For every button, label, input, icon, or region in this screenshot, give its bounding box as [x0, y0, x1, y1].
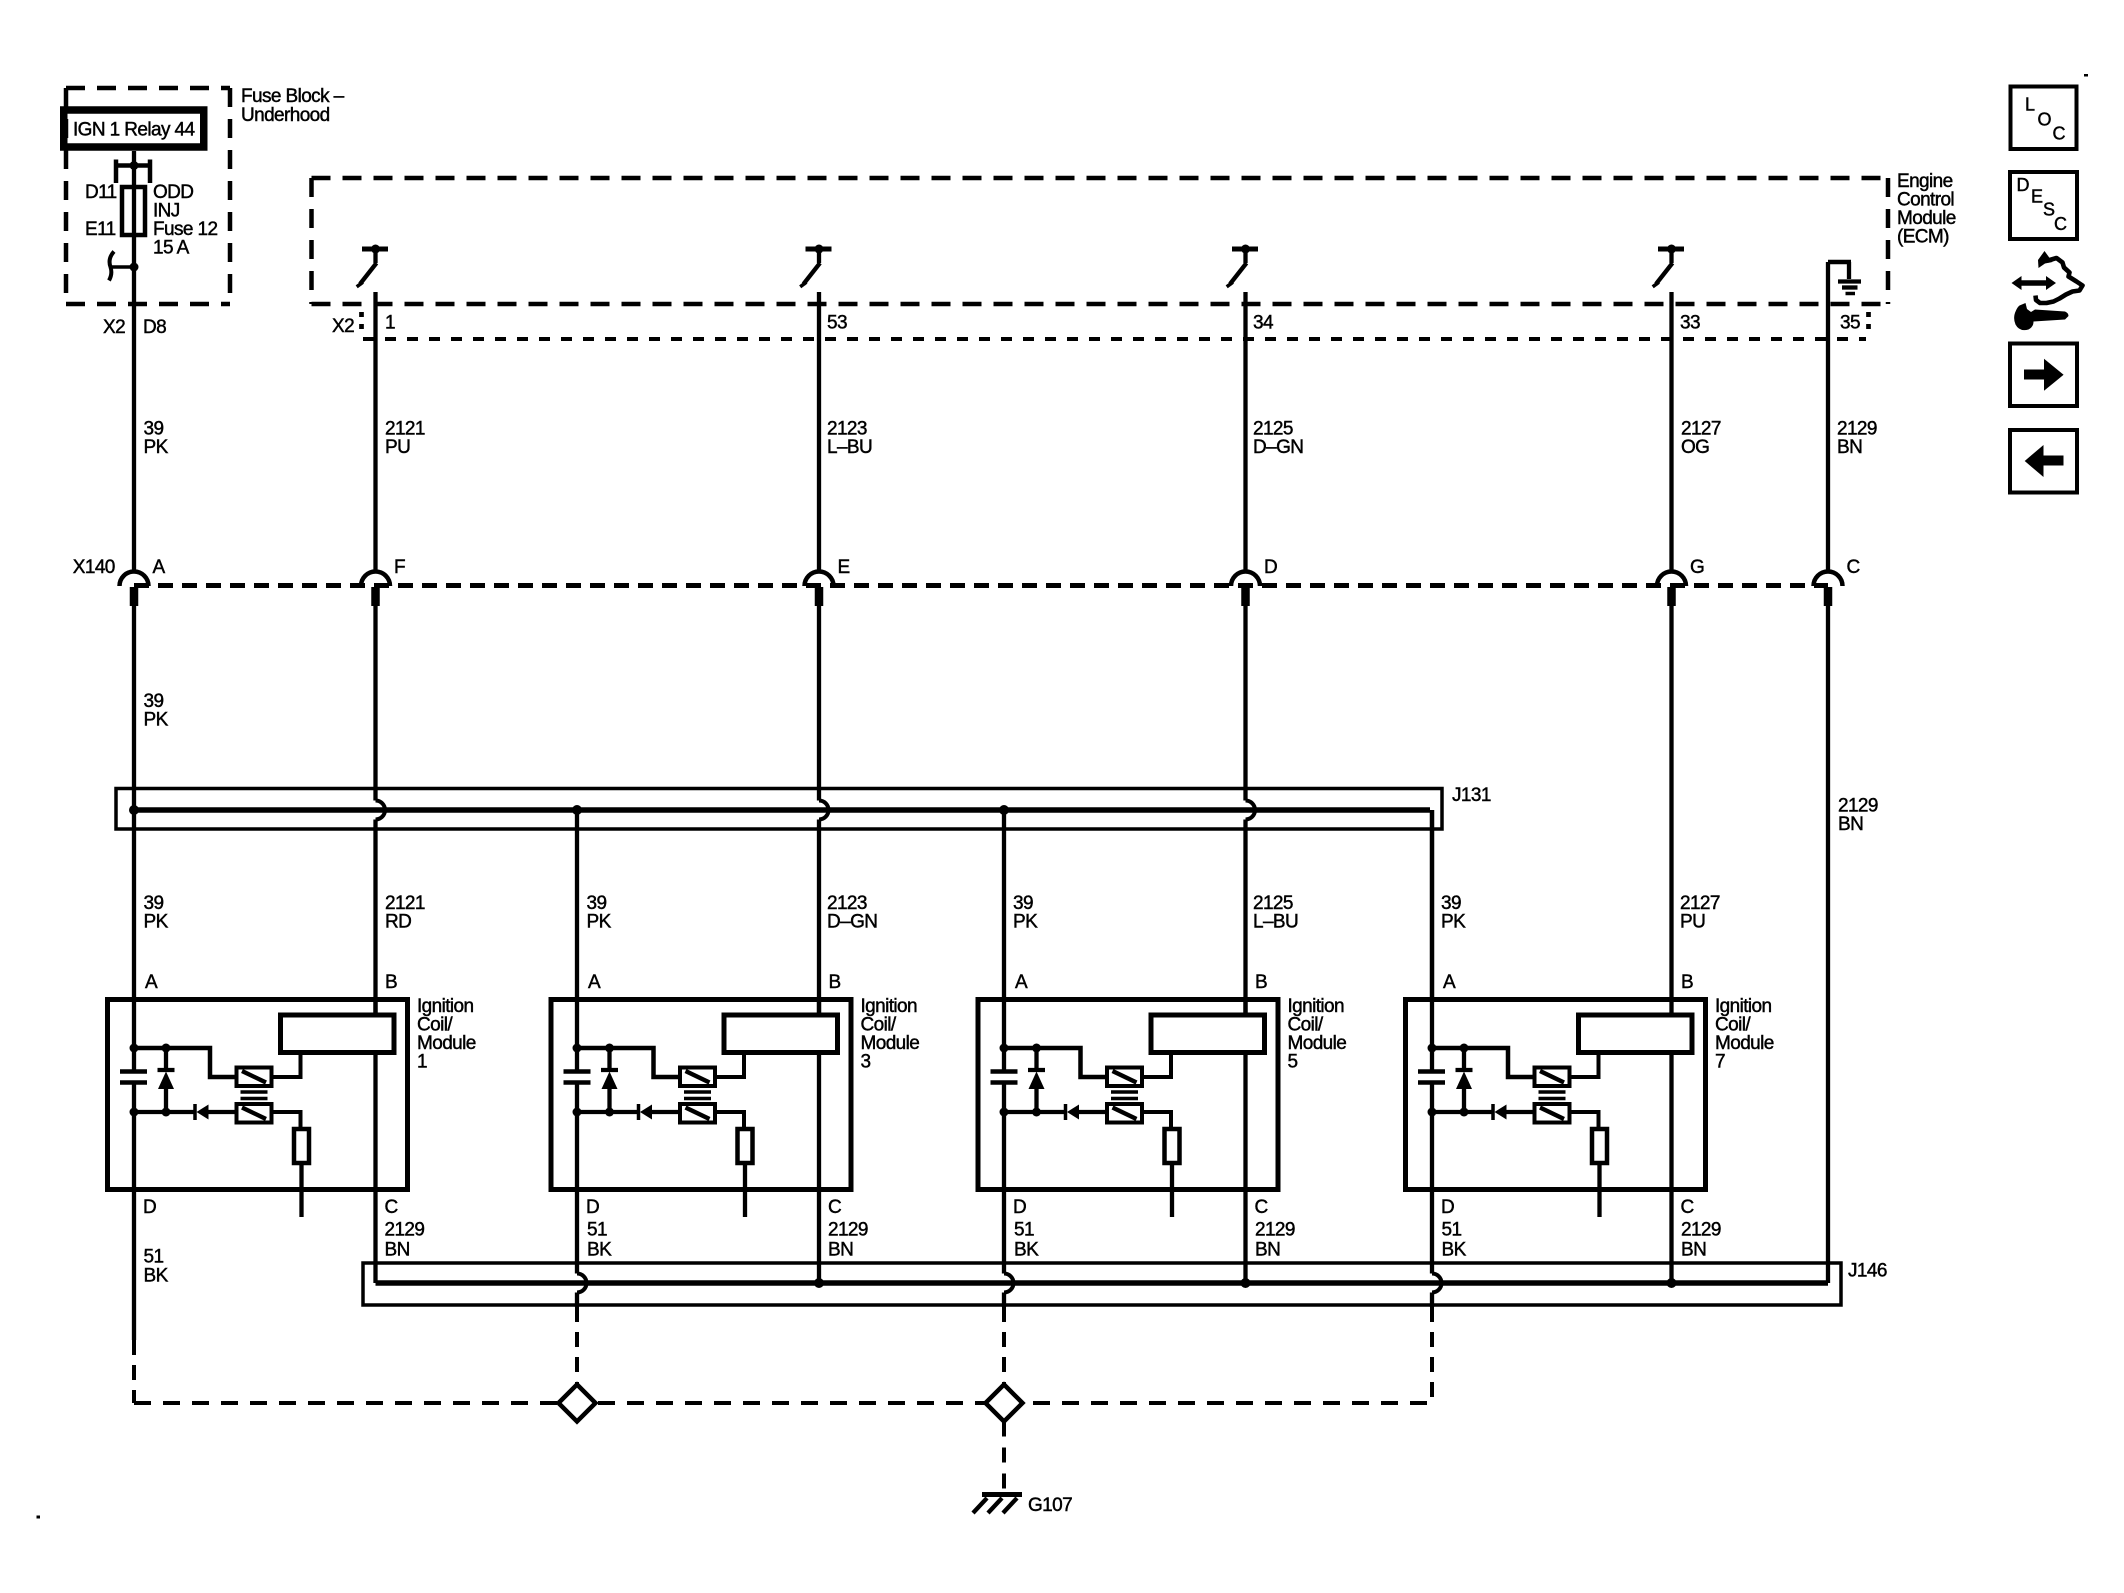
splice pack J131 box: [116, 789, 1442, 830]
dashed wire coil 3 BK to splice: [575, 1307, 579, 1384]
svg-text:X2: X2: [103, 317, 125, 338]
junction J146 coil 5 BN: [1241, 1278, 1251, 1288]
dashed wire coil 7 BK down: [1430, 1307, 1434, 1403]
svg-text:D: D: [2017, 175, 2030, 195]
secondary link coil 5: [1142, 1053, 1171, 1078]
svg-text:B: B: [385, 972, 397, 993]
wire 2123 below J131 to coil 3 B: [817, 820, 821, 1016]
svg-text:PU: PU: [385, 437, 410, 458]
primary winding block coil 5: [1151, 1015, 1265, 1053]
connector tick left: [359, 312, 364, 331]
wire 2125 below J131 to coil 5 B: [1243, 820, 1247, 1016]
core bars coil 7: [1539, 1092, 1566, 1099]
coil 7 internal lower rail: [1432, 1110, 1535, 1114]
coil 3 internal lower rail: [577, 1110, 680, 1114]
junction top-left coil 3: [573, 1044, 582, 1053]
resistor coil 1: [294, 1129, 309, 1163]
junction J146 coil 7 BN: [1667, 1278, 1677, 1288]
svg-text:33: 33: [1680, 313, 1700, 334]
spark output stub coil 7: [1597, 1163, 1601, 1217]
svg-text:BN: BN: [1255, 1240, 1280, 1261]
coil 3 pin A internal wire: [575, 997, 579, 1192]
junction lower zener coil 7: [1460, 1108, 1469, 1117]
fuse F12 ODD INJ Fuse 12 15 A: [122, 187, 145, 235]
junction J146 coil 3 BN: [814, 1278, 824, 1288]
junction top-left coil 7: [1428, 1044, 1437, 1053]
resistor coil 5: [1165, 1129, 1180, 1163]
pin D8 label: [143, 317, 166, 338]
coil 5 internal lower rail: [1004, 1110, 1107, 1114]
ECM driver switch for pin 1: [357, 245, 388, 287]
junction top-left coil 1: [130, 1044, 139, 1053]
wire 2125 D-GN pin34 to X140 D: [1243, 292, 1247, 573]
svg-text:B: B: [1681, 972, 1693, 993]
ECM driver switch for pin 33: [1653, 245, 1684, 287]
wire label 51 BK coil 5: [1014, 1220, 1039, 1261]
svg-text:C: C: [1681, 1197, 1694, 1218]
dashed wire coil 5 BK to splice: [1002, 1307, 1006, 1384]
wire label 2129 BN right side: [1838, 796, 1878, 836]
svg-text:PU: PU: [1680, 912, 1705, 933]
connector tick right: [1866, 312, 1871, 331]
svg-text:2129: 2129: [1255, 1220, 1295, 1241]
spark output stub coil 1: [299, 1163, 303, 1217]
wire coil 1 pin B through primary: [373, 997, 377, 1192]
driver upper coil 7: [1535, 1068, 1570, 1087]
pin 53 label: [827, 313, 847, 334]
svg-text:51: 51: [144, 1247, 164, 1268]
stray mark top right: [2084, 74, 2088, 77]
svg-text:1: 1: [385, 313, 395, 334]
driver lower coil 5: [1107, 1104, 1142, 1123]
svg-text:53: 53: [827, 313, 847, 334]
connector X140 dashed line: [134, 583, 1828, 588]
capacitor coil 1: [120, 1072, 147, 1083]
zener diode coil 5: [1028, 1048, 1045, 1112]
pin B label coil 3: [829, 972, 841, 993]
pin B label coil 1: [385, 972, 397, 993]
svg-text:IGN 1 Relay 44: IGN 1 Relay 44: [73, 120, 196, 141]
wire 2125 above J131: [1243, 606, 1247, 801]
label X2 (ECM connector): [332, 316, 354, 337]
svg-text:D8: D8: [143, 317, 166, 338]
svg-text:E: E: [838, 557, 850, 578]
ECM driver switch for pin 53: [800, 245, 831, 287]
dashed wire splice to ground: [1002, 1422, 1006, 1495]
wire 2121 below J131 to coil 1 B: [373, 820, 377, 1016]
svg-text:C: C: [385, 1197, 398, 1218]
driver upper coil 5: [1107, 1068, 1142, 1087]
svg-text:OG: OG: [1681, 437, 1709, 458]
wire label 39 PK: [144, 419, 169, 459]
diode coil 5: [1066, 1104, 1080, 1120]
wire label 2121 PU: [385, 419, 425, 459]
diode coil 1: [195, 1104, 209, 1120]
svg-text:X140: X140: [73, 557, 115, 578]
driver upper coil 3: [680, 1068, 715, 1087]
svg-text:15 A: 15 A: [153, 238, 190, 259]
harness routing icon (hose and wrench): [2012, 251, 2083, 330]
label Fuse Block - Underhood: [241, 86, 345, 126]
label D11: [85, 182, 117, 203]
svg-text:E: E: [2031, 187, 2043, 207]
junction top zener coil 3: [605, 1044, 614, 1053]
junction lower-left coil 3: [573, 1108, 582, 1117]
wire 2129 BN coil 3 C to J146: [817, 1192, 821, 1283]
J131 bus line: [134, 810, 1432, 997]
wire label 2123 D-GN: [827, 893, 877, 933]
resistor feed coil 3: [715, 1112, 744, 1129]
forward arrow box: [2010, 344, 2077, 407]
svg-text:BK: BK: [1442, 1240, 1467, 1261]
wire 2129 BN coil 7 C to J146: [1669, 1192, 1673, 1283]
ECM dashed box (Engine Control Module): [312, 178, 1889, 304]
svg-text:G107: G107: [1028, 1495, 1072, 1516]
svg-text:D: D: [1013, 1197, 1026, 1218]
pin A label coil 3: [588, 972, 601, 993]
capacitor coil 7: [1418, 1072, 1445, 1083]
X140 terminal A: [120, 557, 166, 606]
pin C label coil 1: [385, 1197, 398, 1218]
svg-text:(ECM): (ECM): [1897, 227, 1949, 248]
wire label 2125 L-BU: [1253, 893, 1298, 933]
pin C label coil 5: [1255, 1197, 1268, 1218]
wire 2127 X140 G to coil 7 B: [1669, 606, 1673, 997]
X140 terminal F: [361, 557, 405, 606]
spark output stub coil 5: [1170, 1163, 1174, 1217]
svg-text:A: A: [588, 972, 601, 993]
wire 2129 BN coil 1 C to J146: [373, 1192, 377, 1283]
svg-text:PK: PK: [144, 437, 169, 458]
core bars coil 5: [1111, 1092, 1138, 1099]
junction lower zener coil 3: [605, 1108, 614, 1117]
svg-text:A: A: [153, 557, 166, 578]
svg-text:RD: RD: [385, 912, 411, 933]
svg-text:PK: PK: [1013, 912, 1038, 933]
svg-text:D: D: [143, 1197, 156, 1218]
ignition coil module 1 box: [108, 1000, 408, 1190]
junction node at relay contact: [130, 263, 139, 272]
svg-text:BK: BK: [144, 1266, 169, 1287]
ignition coil module 5 box: [978, 1000, 1278, 1190]
ECM internal ground symbol at pin 35: [1828, 262, 1861, 294]
splice diamond S2: [986, 1385, 1023, 1422]
zener diode coil 3: [601, 1048, 618, 1112]
svg-text:2129: 2129: [385, 1220, 425, 1241]
svg-text:BN: BN: [1838, 814, 1863, 835]
svg-text:5: 5: [1288, 1052, 1298, 1073]
resistor feed coil 1: [272, 1112, 301, 1129]
label J131: [1452, 785, 1491, 806]
pin C label coil 3: [828, 1197, 841, 1218]
wire label 51 BK coil 3: [587, 1220, 612, 1261]
svg-text:L–BU: L–BU: [827, 437, 872, 458]
ground G107 symbol: [973, 1495, 1022, 1514]
svg-text:B: B: [829, 972, 841, 993]
svg-text:34: 34: [1253, 313, 1274, 334]
pin 33 label: [1680, 313, 1700, 334]
zener diode coil 1: [158, 1048, 175, 1112]
wire label 51 BK coil 1: [144, 1247, 169, 1287]
svg-text:J131: J131: [1452, 785, 1491, 806]
svg-text:D: D: [586, 1197, 599, 1218]
stray speck bottom left: [37, 1516, 41, 1519]
svg-text:BK: BK: [587, 1240, 612, 1261]
label E11: [85, 219, 116, 240]
svg-text:7: 7: [1715, 1052, 1725, 1073]
pin C label coil 7: [1681, 1197, 1694, 1218]
wire 2123 L-BU pin53 to X140 E: [817, 292, 821, 573]
wire 51 BK coil 5 D to J146: [1002, 1192, 1006, 1274]
wire label 2121 RD: [385, 893, 425, 933]
svg-text:C: C: [1255, 1197, 1268, 1218]
junction top zener coil 1: [162, 1044, 171, 1053]
wire coil 3 pin B through primary: [817, 997, 821, 1192]
ECM driver switch for pin 34: [1227, 245, 1258, 287]
svg-text:35: 35: [1840, 313, 1860, 334]
pin 34 label: [1253, 313, 1274, 334]
wire 2129 BN coil 5 C to J146: [1243, 1192, 1247, 1283]
wire 51 BK coil 1 D down: [132, 1192, 136, 1340]
DESC navigation box: [2010, 172, 2077, 239]
primary winding block coil 1: [281, 1015, 395, 1053]
svg-text:51: 51: [1442, 1220, 1462, 1241]
svg-text:D11: D11: [85, 182, 117, 203]
wire 2123 hop over J131: [819, 801, 829, 820]
wire label 39 PK (coil3 A): [587, 893, 612, 933]
svg-text:Fuse Block –: Fuse Block –: [241, 86, 345, 107]
junction top-left coil 5: [1000, 1044, 1009, 1053]
svg-text:E11: E11: [85, 219, 116, 240]
wire 2121 PU pin1 to X140 F: [373, 292, 377, 573]
capacitor coil 3: [564, 1072, 591, 1083]
wire label 2129 BN coil 1: [385, 1220, 425, 1261]
svg-text:PK: PK: [587, 912, 612, 933]
X140 terminal D: [1231, 557, 1277, 606]
back arrow box: [2010, 430, 2077, 493]
svg-text:D: D: [1264, 557, 1277, 578]
relay switch contact: [109, 252, 134, 281]
svg-text:A: A: [1443, 972, 1456, 993]
svg-text:L: L: [2025, 95, 2035, 115]
junction J131 to coil 3: [572, 805, 582, 815]
wire coil 3 BK hop over J146: [577, 1274, 587, 1293]
wire label 39 PK (below X140): [144, 691, 169, 731]
splice diamond S1: [559, 1385, 596, 1422]
svg-text:A: A: [145, 972, 158, 993]
driver lower coil 1: [237, 1104, 272, 1123]
relay coil terminal bracket: [116, 160, 150, 184]
driver lower coil 7: [1535, 1104, 1570, 1123]
coil 7 internal top rail: [1432, 1048, 1535, 1077]
dashed ground bus line: [134, 1401, 1432, 1405]
primary winding block coil 7: [1579, 1015, 1693, 1053]
junction lower zener coil 5: [1032, 1108, 1041, 1117]
wire 39 PK J131 to coil 5 A: [1002, 810, 1006, 997]
svg-text:BK: BK: [1014, 1240, 1039, 1261]
svg-text:C: C: [2054, 214, 2067, 234]
wire label 2129 BN coil 3: [828, 1220, 868, 1261]
label Ignition Coil Module 1: [417, 996, 476, 1073]
svg-text:1: 1: [417, 1052, 427, 1073]
ignition coil module 3 box: [551, 1000, 851, 1190]
svg-text:D–GN: D–GN: [827, 912, 877, 933]
core bars coil 3: [684, 1092, 711, 1099]
wire coil 5 BK hop over J146: [1004, 1274, 1014, 1293]
junction lower zener coil 1: [162, 1108, 171, 1117]
wire label 2129 BN coil 7: [1681, 1220, 1721, 1261]
driver upper coil 1: [237, 1068, 272, 1087]
coil 1 internal lower rail: [134, 1110, 237, 1114]
wire 2121 hop over J131: [376, 801, 386, 820]
label X140: [73, 557, 115, 578]
junction lower-left coil 1: [130, 1108, 139, 1117]
secondary link coil 3: [715, 1053, 744, 1078]
wire 2123 above J131: [817, 606, 821, 801]
svg-text:B: B: [1255, 972, 1267, 993]
wire label 2129 BN: [1837, 419, 1877, 459]
resistor feed coil 5: [1142, 1112, 1171, 1129]
svg-text:O: O: [2038, 110, 2052, 130]
wire 51 BK coil 7 D to J146: [1430, 1192, 1434, 1274]
wire 39 PK J131 to coil 3 A: [575, 810, 579, 997]
pin A label coil 5: [1015, 972, 1028, 993]
pin A label coil 1: [145, 972, 158, 993]
coil 7 pin A internal wire: [1430, 997, 1434, 1192]
junction lower-left coil 7: [1428, 1108, 1437, 1117]
diode coil 7: [1493, 1104, 1507, 1120]
wire stubs below J146 hops: [577, 1293, 1432, 1308]
diode coil 3: [639, 1104, 653, 1120]
primary winding block coil 3: [724, 1015, 838, 1053]
svg-text:PK: PK: [144, 912, 169, 933]
resistor coil 3: [738, 1129, 753, 1163]
svg-text:D–GN: D–GN: [1253, 437, 1303, 458]
svg-text:C: C: [2053, 124, 2066, 144]
wire 2129 BN pin35 to X140 C: [1826, 262, 1830, 573]
svg-text:PK: PK: [144, 710, 169, 731]
wire 39 PK from relay through fuse: [132, 151, 136, 573]
svg-text:2129: 2129: [828, 1220, 868, 1241]
dashed wire coil 1 BK down: [132, 1340, 136, 1403]
wire 2129 BN X140 C down right side: [1826, 606, 1830, 1283]
pin D label coil 7: [1441, 1197, 1454, 1218]
wire 39 PK X140 A to J131: [132, 606, 136, 997]
label Engine Control Module (ECM): [1897, 171, 1956, 248]
splice pack J146 box: [363, 1263, 1841, 1305]
junction J131 at 39 PK feed: [129, 805, 139, 815]
wire label 2125 D-GN: [1253, 419, 1303, 459]
svg-text:C: C: [1847, 557, 1860, 578]
pin A label coil 7: [1443, 972, 1456, 993]
junction lower-left coil 5: [1000, 1108, 1009, 1117]
wire 51 BK coil 3 D to J146: [575, 1192, 579, 1274]
X140 terminal C: [1814, 557, 1860, 606]
svg-text:L–BU: L–BU: [1253, 912, 1298, 933]
core bars coil 1: [241, 1092, 268, 1099]
pin 35 label: [1840, 313, 1860, 334]
svg-text:G: G: [1690, 557, 1704, 578]
svg-text:PK: PK: [1441, 912, 1466, 933]
junction J131 to coil 5: [999, 805, 1009, 815]
label ODD INJ Fuse 12 15 A: [153, 182, 217, 259]
coil 5 pin A internal wire: [1002, 997, 1006, 1192]
svg-text:Underhood: Underhood: [241, 105, 330, 126]
wire coil 5 pin B through primary: [1243, 997, 1247, 1192]
resistor coil 7: [1592, 1129, 1607, 1163]
wire coil 7 pin B through primary: [1669, 997, 1673, 1192]
pin B label coil 5: [1255, 972, 1267, 993]
capacitor coil 5: [991, 1072, 1018, 1083]
label J146: [1848, 1261, 1887, 1282]
X140 terminal E: [805, 557, 850, 606]
LOC navigation box: [2011, 87, 2077, 150]
svg-text:X2: X2: [332, 316, 354, 337]
pin D label coil 3: [586, 1197, 599, 1218]
driver lower coil 3: [680, 1104, 715, 1123]
fuse block dashed box (Fuse Block - Underhood): [66, 88, 230, 304]
coil 3 internal top rail: [577, 1048, 680, 1077]
secondary link coil 1: [272, 1053, 301, 1078]
pin D label coil 1: [143, 1197, 156, 1218]
label Ignition Coil Module 7: [1715, 996, 1774, 1073]
coil 1 pin A internal wire: [132, 997, 136, 1192]
wire label 2127 PU: [1680, 893, 1720, 933]
coil 1 internal top rail: [134, 1048, 237, 1077]
junction top zener coil 7: [1460, 1044, 1469, 1053]
svg-text:BN: BN: [1681, 1240, 1706, 1261]
wire label 51 BK coil 7: [1442, 1220, 1467, 1261]
wire 2127 OG pin33 to X140 G: [1669, 292, 1673, 573]
spark output stub coil 3: [743, 1163, 747, 1217]
label X2 (fuse block connector): [103, 317, 125, 338]
junction node at relay terminal: [130, 161, 139, 170]
label G107: [1028, 1495, 1072, 1516]
svg-text:2129: 2129: [1681, 1220, 1721, 1241]
wire label 39 PK (coil5 A): [1013, 893, 1038, 933]
wire label 2123 L-BU: [827, 419, 872, 459]
svg-text:51: 51: [587, 1220, 607, 1241]
pin B label coil 7: [1681, 972, 1693, 993]
svg-text:F: F: [394, 557, 405, 578]
wire label 2127 OG: [1681, 419, 1721, 459]
coil 5 internal top rail: [1004, 1048, 1107, 1077]
svg-text:D: D: [1441, 1197, 1454, 1218]
ignition coil module 7 box: [1406, 1000, 1706, 1190]
svg-text:51: 51: [1014, 1220, 1034, 1241]
relay IGN 1 Relay 44: [64, 110, 204, 147]
secondary link coil 7: [1570, 1053, 1599, 1078]
svg-text:BN: BN: [1837, 437, 1862, 458]
pin 1 label: [385, 313, 395, 334]
svg-text:A: A: [1015, 972, 1028, 993]
ECM connector dotted line X2: [363, 337, 1866, 341]
wire label 2129 BN coil 5: [1255, 1220, 1295, 1261]
svg-text:3: 3: [861, 1052, 871, 1073]
pin D label coil 5: [1013, 1197, 1026, 1218]
svg-text:C: C: [828, 1197, 841, 1218]
junction top zener coil 5: [1032, 1044, 1041, 1053]
X140 terminal G: [1657, 557, 1704, 606]
resistor feed coil 7: [1570, 1112, 1599, 1129]
wire label 39 PK (coil1 A): [144, 893, 169, 933]
label Ignition Coil Module 5: [1288, 996, 1347, 1073]
zener diode coil 7: [1456, 1048, 1473, 1112]
wire label 39 PK (coil7 A): [1441, 893, 1466, 933]
svg-text:BN: BN: [828, 1240, 853, 1261]
svg-text:J146: J146: [1848, 1261, 1887, 1282]
wire 2125 hop over J131: [1246, 801, 1256, 820]
